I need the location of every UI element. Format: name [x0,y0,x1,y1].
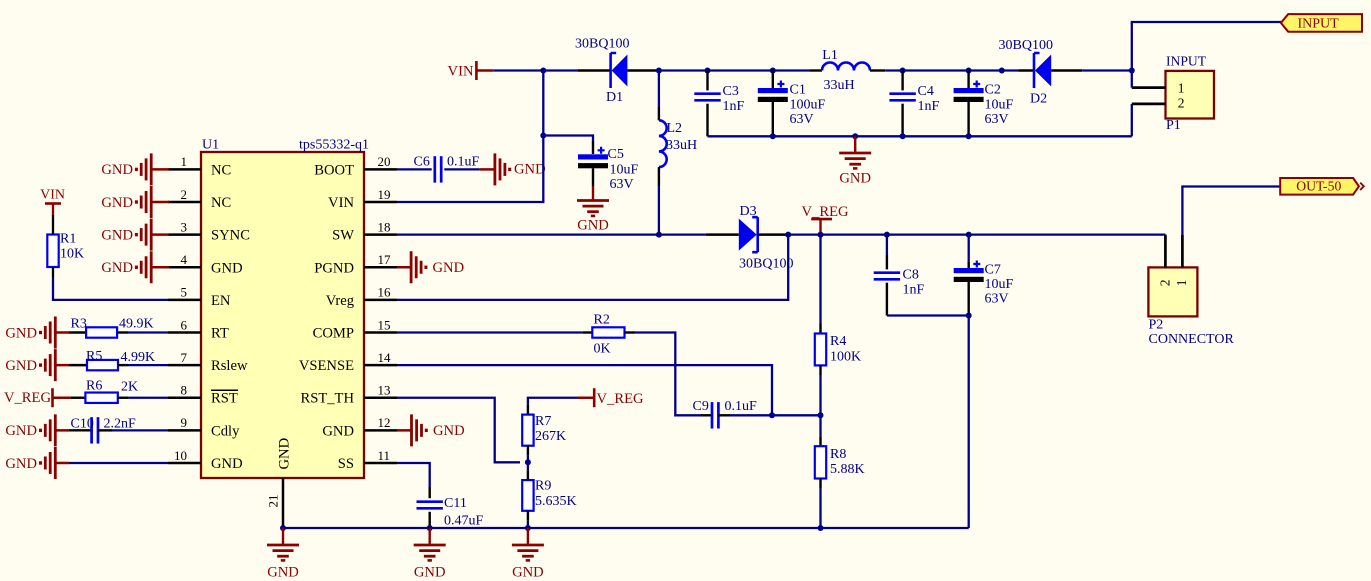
wire VIN branch down to pin 19 [397,71,543,203]
svg-text:INPUT: INPUT [1298,17,1340,32]
wire ground bus [283,527,969,529]
U1 pin 3 (SYNC) [168,219,250,243]
U1 pin 4 (GND) [168,252,243,276]
wire bottom filter rail [708,135,1132,137]
power port V_REG at R6 [4,388,71,407]
capacitor C5 (polarized) [578,141,639,192]
wire SW pin 18 rail [397,233,706,235]
resistor R2 [582,313,634,357]
svg-text:L1: L1 [822,48,838,63]
node C4 bottom junction [900,133,906,139]
svg-text:C3: C3 [723,84,739,99]
svg-text:16: 16 [378,285,392,300]
node R8 junction [818,525,824,531]
svg-text:NC: NC [211,195,231,211]
svg-text:NC: NC [211,162,231,178]
svg-text:GND: GND [211,260,243,276]
svg-text:R1: R1 [60,232,76,247]
svg-text:C10: C10 [71,417,94,432]
svg-text:17: 17 [378,252,392,267]
svg-text:V_REG: V_REG [802,204,849,220]
resistor R1 [47,215,84,277]
svg-text:100K: 100K [830,349,861,364]
U1 pin 1 (NC) [168,154,231,178]
svg-text:C5: C5 [608,147,624,162]
svg-text:VIN: VIN [448,64,474,80]
node P1/INPUT junction [1129,68,1135,74]
svg-text:GND: GND [101,227,133,243]
diode D2 30BQ100 [999,38,1083,107]
node C2 top junction [966,68,972,74]
node L2/SW junction [656,232,662,238]
svg-text:R8: R8 [830,447,846,462]
node V_REG/R4 junction [818,232,824,238]
wire BOOT pin 20 to C6 [397,168,432,170]
wire to C5 [543,136,593,142]
svg-text:1: 1 [1174,280,1189,287]
svg-text:0K: 0K [594,342,611,357]
svg-text:R5: R5 [86,349,102,364]
capacitor C3 [694,71,744,137]
wire C10 to pin 9 [112,429,168,431]
svg-text:20: 20 [378,154,391,169]
svg-text:1: 1 [181,154,188,169]
node C7 junction [966,232,972,238]
ground port GND at C10 [5,414,69,446]
wire P1 pin1 stub [1131,71,1133,88]
svg-text:GND: GND [277,438,293,470]
svg-text:Rslew: Rslew [211,358,248,374]
svg-text:GND: GND [414,565,446,581]
wire V_REG to R7 [528,398,577,405]
wire OUT-50 to P2 pin1 [1182,187,1279,236]
svg-text:COMP: COMP [313,326,354,342]
capacitor C10 [69,417,136,444]
svg-text:30BQ100: 30BQ100 [739,257,793,272]
wire D1 junction to C3 [659,69,708,71]
svg-text:18: 18 [378,219,391,234]
svg-text:GND: GND [433,423,465,439]
svg-text:SW: SW [332,228,354,244]
wire C7 branch down to bus [968,316,970,529]
svg-text:GND: GND [267,565,299,581]
svg-text:14: 14 [378,350,392,365]
svg-text:R3: R3 [71,317,87,332]
svg-text:63V: 63V [985,112,1009,127]
node C4 top junction [900,68,906,74]
svg-text:1nF: 1nF [903,283,925,298]
ground symbol below C11 [414,528,446,581]
wire D2 to P1 junction [1082,69,1132,71]
svg-text:GND: GND [433,260,465,276]
ground symbol below filter [839,136,871,186]
svg-text:0.1uF: 0.1uF [447,155,480,170]
port flag OUT-50 [1280,178,1364,195]
svg-text:11: 11 [378,448,391,463]
inductor L1 33uH [810,48,885,93]
svg-text:EN: EN [211,293,231,309]
svg-text:3: 3 [181,219,188,234]
resistor R3 [69,317,154,338]
capacitor C9 [693,399,758,429]
node C2 bottom junction [966,133,972,139]
wire P1 pin2 stub [1131,104,1133,136]
svg-text:2K: 2K [121,380,138,395]
resistor R4 [815,235,861,416]
svg-text:C11: C11 [444,496,467,511]
wire junction up to INPUT flag [1132,22,1281,71]
U1 pin 17 (PGND) [314,252,397,276]
node D1/L2 junction [656,68,662,74]
svg-text:GND: GND [5,325,37,341]
svg-text:D3: D3 [740,204,757,219]
node C5 tap junction [540,133,546,139]
svg-text:VSENSE: VSENSE [299,358,354,374]
svg-text:GND: GND [211,456,243,472]
svg-text:C1: C1 [790,83,806,98]
wire SS pin 11 to C11 [397,463,430,487]
svg-text:R9: R9 [535,479,551,494]
svg-text:63V: 63V [790,112,814,127]
node C3 top junction [705,68,711,74]
svg-text:R2: R2 [594,313,610,328]
wire RST_TH pin 13 [397,398,520,463]
svg-text:49.9K: 49.9K [119,317,154,332]
U1 pin 20 (BOOT) [314,154,397,178]
port flag INPUT [1281,14,1362,32]
svg-text:10uF: 10uF [610,163,639,178]
wire R6 to pin 8 [128,397,168,399]
ground symbol below C5 [577,186,609,234]
svg-text:2: 2 [181,187,188,202]
power port V_REG (at R7) [577,388,644,407]
U1 pin 14 (VSENSE) [299,350,397,374]
node C1 bottom junction [770,133,776,139]
node V_REG/Vreg-pin junction [785,232,791,238]
svg-text:10uF: 10uF [985,97,1014,112]
node extra junction on rail [999,68,1005,74]
svg-text:1: 1 [1178,81,1185,96]
wire C8 bottom link [887,314,969,316]
wire R2 to C9 [635,333,702,416]
svg-text:5.88K: 5.88K [830,462,865,477]
svg-text:GND: GND [101,260,133,276]
svg-text:8: 8 [181,383,188,398]
svg-text:V_REG: V_REG [4,390,51,406]
U1 pin 19 (VIN) [328,187,397,211]
svg-text:GND: GND [512,565,544,581]
svg-text:0.1uF: 0.1uF [725,399,758,414]
svg-text:10uF: 10uF [985,277,1014,292]
wire V_REG rail to P2 [788,233,1165,235]
capacitor C7 (polarized) [954,235,1014,316]
inductor L2 33uH [659,71,697,235]
svg-text:CONNECTOR: CONNECTOR [1149,332,1235,347]
svg-text:63V: 63V [610,177,634,192]
svg-text:L2: L2 [667,121,683,136]
svg-text:9: 9 [181,415,188,430]
connector P2 [1148,235,1234,348]
U1 pin 2 (NC) [168,187,231,211]
svg-text:GND: GND [514,161,546,177]
svg-text:RST: RST [211,391,238,407]
svg-text:VIN: VIN [40,188,65,203]
svg-text:33uH: 33uH [666,138,697,153]
ground port GND at U1 pin 10 [5,447,69,479]
U1 pin 11 (SS) [338,448,397,472]
wire C3 to C1 top [708,69,773,71]
power port V_REG (rail) [802,204,849,235]
U1 pin 21 (GND, bottom) [266,438,293,528]
capacitor C8 [874,235,925,316]
svg-text:2: 2 [1158,280,1173,287]
svg-text:267K: 267K [535,429,566,444]
svg-text:19: 19 [378,187,391,202]
U1 pin 12 (GND) [322,415,397,439]
svg-text:C2: C2 [985,83,1001,98]
ground port GND at R3 [5,317,69,349]
svg-text:C4: C4 [918,84,934,99]
wire VSENSE pin 14 [397,365,772,415]
svg-text:R6: R6 [86,379,102,394]
capacitor C11 [417,487,484,529]
svg-text:tps55332-q1: tps55332-q1 [299,138,369,153]
ground port GND at U1 pin 3 [101,219,169,251]
wire C2 top to D2 [969,69,1019,71]
svg-text:63V: 63V [985,292,1009,307]
svg-text:10K: 10K [60,247,84,262]
svg-text:SS: SS [338,456,354,472]
svg-text:GND: GND [101,162,133,178]
svg-text:13: 13 [378,383,391,398]
wire C1 top to L1 [773,69,810,71]
svg-text:100uF: 100uF [790,97,826,112]
U1 pin 15 (COMP) [313,317,397,341]
svg-text:P2: P2 [1149,318,1164,333]
U1 pin 16 (Vreg) [326,285,397,309]
wire VIN to D1 [494,69,578,71]
svg-text:D2: D2 [1030,92,1047,107]
svg-text:0.47uF: 0.47uF [444,514,484,529]
wire COMP pin 15 to R2 [397,331,582,333]
node R7/R9 junction [525,459,531,465]
wire R3 to pin 6 [128,331,168,333]
ground port GND at U1 pin 4 [101,251,169,283]
ground port GND at U1 pin 1 [101,153,169,185]
wire VSENSE node to divider [772,414,821,416]
svg-text:GND: GND [5,423,37,439]
svg-text:5.635K: 5.635K [535,494,577,509]
svg-text:30BQ100: 30BQ100 [999,38,1053,53]
ground symbol below pin 21 [267,528,299,581]
svg-text:GND: GND [839,171,871,187]
svg-text:RST_TH: RST_TH [300,391,354,407]
node pin21 junction [280,525,286,531]
U1 pin 7 (Rslew) [168,350,248,374]
node C8/C7 junction [966,313,972,319]
wire GND to pin 10 [69,462,168,464]
U1 pin 18 (SW) [332,219,397,243]
svg-text:INPUT: INPUT [1166,54,1207,69]
svg-text:12: 12 [378,415,391,430]
svg-text:7: 7 [181,350,188,365]
wire L1 to C4 top [885,69,902,71]
svg-text:R7: R7 [535,414,551,429]
svg-text:5: 5 [181,285,188,300]
resistor R9 [522,462,576,528]
svg-text:2: 2 [1178,95,1185,110]
svg-text:1nF: 1nF [918,99,940,114]
node C8 junction [884,232,890,238]
svg-text:OUT-50: OUT-50 [1296,178,1341,193]
svg-text:PGND: PGND [314,260,354,276]
wire R5 to pin 7 [128,364,168,366]
U1 pin 8 (RST) [168,383,238,407]
svg-text:1nF: 1nF [723,99,745,114]
connector P1 [1132,54,1214,134]
ground port GND at U1 pin 2 [101,186,169,218]
node GND tap junction [852,133,858,139]
wire C9 to VSENSE node [730,414,772,416]
node C11 junction [427,525,433,531]
svg-text:C9: C9 [693,399,709,414]
power port VIN (input rail) [448,61,494,80]
wire C4 top to C2 top [903,69,969,71]
capacitor C4 [889,71,939,137]
wire Vreg pin 16 feedback [397,235,788,300]
node divider mid junction [818,412,824,418]
svg-text:4.99K: 4.99K [121,350,156,365]
svg-text:D1: D1 [606,90,623,105]
power port VIN (above R1) [40,188,65,216]
svg-text:4: 4 [181,252,188,267]
U1 pin 5 (EN) [168,285,231,309]
svg-text:Vreg: Vreg [326,293,355,309]
svg-text:GND: GND [101,195,133,211]
svg-text:30BQ100: 30BQ100 [575,37,629,52]
ground symbol below R9 [512,528,544,581]
svg-text:RT: RT [211,326,229,342]
svg-text:R4: R4 [830,334,846,349]
svg-text:SYNC: SYNC [211,228,250,244]
capacitor C2 (polarized) [954,71,1014,137]
svg-text:VIN: VIN [328,195,354,211]
ground port GND at U1 pin 17 [397,251,464,283]
resistor R7 [522,405,566,463]
svg-text:GND: GND [5,456,37,472]
node C1 top junction [770,68,776,74]
U1 pin 9 (Cdly) [168,415,240,439]
node VSENSE junction [769,412,775,418]
node VIN/C5 branch junction [540,68,546,74]
op-amp/regulator IC U1 body [201,138,369,479]
U1 pin 10 (GND) [168,448,243,472]
svg-text:GND: GND [322,423,354,439]
svg-text:Cdly: Cdly [211,423,240,439]
svg-text:10: 10 [174,448,187,463]
svg-text:33uH: 33uH [824,78,855,93]
svg-text:21: 21 [266,495,281,508]
ground port GND at U1 pin 12 [397,414,465,446]
U1 pin 6 (RT) [168,317,229,341]
ground port GND at C6 [479,153,545,185]
resistor R6 [71,379,139,403]
svg-text:U1: U1 [202,138,219,153]
capacitor C1 (polarized) [758,71,826,137]
resistor R5 [69,349,155,370]
resistor R8 [815,415,865,528]
svg-text:P1: P1 [1166,118,1181,133]
node R9 junction [525,525,531,531]
capacitor C6 [414,155,480,183]
svg-text:C8: C8 [903,268,919,283]
svg-text:GND: GND [5,358,37,374]
diode D1 30BQ100 [575,37,658,106]
svg-text:6: 6 [181,317,188,332]
U1 pin 13 (RST_TH) [300,383,397,407]
ground port GND at R5 [5,349,69,381]
svg-text:V_REG: V_REG [597,391,644,407]
svg-text:GND: GND [577,218,609,234]
svg-text:C7: C7 [985,263,1001,278]
svg-text:BOOT: BOOT [314,162,354,178]
diode D3 30BQ100 [706,204,794,272]
wire R1 to EN pin 5 [53,277,168,300]
svg-text:C6: C6 [414,155,430,170]
svg-text:15: 15 [378,317,391,332]
